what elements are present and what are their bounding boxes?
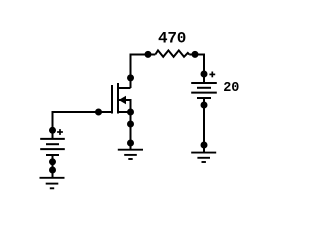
transistor Q1 gate bar bbox=[111, 85, 113, 114]
wire source to ground bbox=[130, 112, 132, 150]
transistor Q1 channel bar bbox=[117, 83, 119, 114]
svg-text:20: 20 bbox=[223, 81, 239, 96]
svg-text:470: 470 bbox=[158, 30, 186, 48]
node dot battery V1 negative terminal bbox=[49, 158, 56, 165]
node dot middle ground terminal bbox=[127, 140, 134, 147]
wire left column battery to ground bbox=[52, 155, 54, 178]
node dot battery V2 positive terminal bbox=[201, 71, 208, 78]
ground right bbox=[191, 153, 216, 162]
wire gate rail bbox=[53, 112, 113, 139]
node dot left ground terminal bbox=[49, 167, 56, 174]
transistor Q1 drain lead bbox=[118, 87, 131, 89]
node dot source junction bbox=[127, 109, 134, 116]
node dot source wire terminal bbox=[127, 121, 134, 128]
battery V2 right 20V plates bbox=[191, 83, 217, 98]
transistor Q1 substrate arrow bbox=[119, 96, 126, 104]
wire top rail left segment bbox=[131, 55, 156, 89]
plus sign battery V2 bbox=[209, 72, 215, 78]
node dot battery V2 negative terminal bbox=[201, 102, 208, 109]
node dot resistor left terminal bbox=[145, 51, 152, 58]
plus sign battery V1 bbox=[57, 129, 63, 135]
transistor Q1 body lead bbox=[119, 100, 131, 112]
battery V1 left plates bbox=[40, 139, 65, 155]
wire right column battery to ground bbox=[203, 98, 205, 152]
resistor R1 zigzag bbox=[155, 50, 189, 56]
node dot battery V1 positive terminal bbox=[49, 127, 56, 134]
node dot drain bbox=[127, 74, 134, 81]
transistor Q1 source lead bbox=[118, 111, 131, 113]
node dot gate wire bbox=[95, 109, 102, 116]
ground left bbox=[40, 178, 65, 189]
ground middle bbox=[118, 150, 143, 159]
node dot resistor right terminal bbox=[192, 51, 199, 58]
wire top rail right segment bbox=[189, 55, 204, 84]
node dot right ground terminal bbox=[201, 142, 208, 149]
